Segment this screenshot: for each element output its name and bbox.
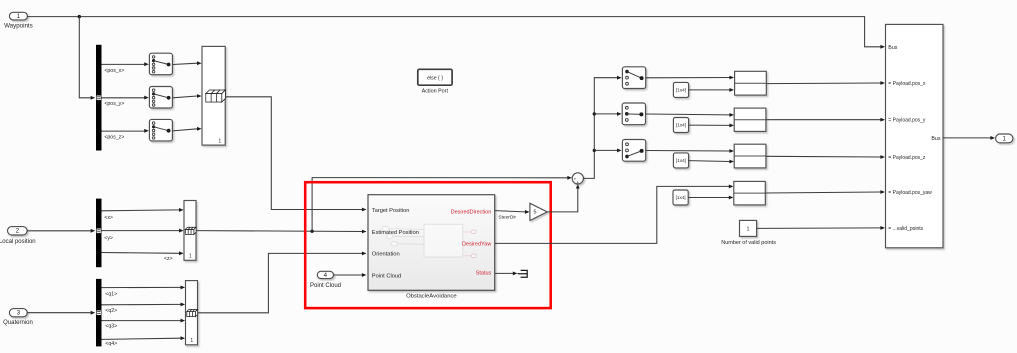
- svg-text:Action Port: Action Port: [422, 89, 449, 95]
- constant [1x4] row1: [673, 82, 688, 97]
- wire sum to switch 1: [583, 78, 617, 179]
- svg-text:[1x4]: [1x4]: [676, 88, 686, 93]
- subsystem ObstacleAvoidance: [368, 195, 495, 291]
- wire z: [102, 252, 180, 255]
- multiport switch 3: [622, 140, 645, 162]
- multiport switch 2: [622, 103, 645, 125]
- svg-text:3: 3: [17, 310, 21, 317]
- wire to switch 2: [594, 113, 617, 115]
- svg-text:<q2>: <q2>: [105, 308, 117, 314]
- terminator block: [518, 270, 528, 277]
- wire concat row1 to pos_x: [766, 82, 880, 85]
- svg-text:5: 5: [534, 210, 537, 216]
- inport block 4 Point Cloud: [317, 271, 333, 278]
- wire q4: [102, 338, 181, 339]
- vector concatenate block (waypoints xyz): [202, 46, 225, 145]
- multiport switch 1: [622, 67, 645, 89]
- constant [1x4] row2: [673, 118, 688, 133]
- svg-text:Status: Status: [476, 270, 492, 276]
- wire Status to terminator: [495, 272, 513, 274]
- svg-text:Point Cloud: Point Cloud: [310, 283, 341, 289]
- svg-text:= ...valid_points: = ...valid_points: [888, 226, 923, 232]
- svg-text:1: 1: [17, 13, 21, 20]
- wire concat row3 to pos_z: [766, 155, 881, 158]
- svg-text:Target Position: Target Position: [372, 208, 410, 214]
- svg-text:[1x4]: [1x4]: [676, 123, 686, 128]
- wire pos_z: [102, 130, 145, 132]
- bus selector 3: [96, 279, 102, 347]
- svg-text:ObstacleAvoidance: ObstacleAvoidance: [406, 294, 457, 300]
- constant [1x4] row4: [673, 190, 688, 205]
- concatenate row3: [734, 144, 766, 168]
- svg-text:[1x4]: [1x4]: [676, 195, 686, 200]
- bus assignment block: [886, 24, 944, 247]
- wire waypoints branch to bus selector 1: [79, 17, 90, 98]
- outport block 1: [996, 134, 1013, 143]
- concatenate row4: [734, 181, 766, 205]
- svg-text:1: 1: [189, 254, 192, 260]
- svg-text:Estimated Position: Estimated Position: [372, 230, 419, 236]
- wire inport2 to bus selector 2: [27, 230, 91, 232]
- wire concat row4 to pos_yaw: [765, 192, 880, 193]
- junction waypoints branch: [78, 15, 81, 18]
- wire 1x4 row3: [689, 160, 730, 163]
- wire gain to sum: [547, 189, 578, 212]
- gain block 5: [530, 203, 547, 220]
- selector block 2: [149, 87, 172, 109]
- wire q3: [102, 320, 181, 322]
- constant block 1 Number of valid points: [740, 220, 757, 236]
- wire 1x4 row1: [689, 89, 730, 91]
- wire pos_x: [102, 63, 145, 65]
- svg-text:SteerDir: SteerDir: [498, 215, 516, 221]
- svg-text:= Payload.pos_yaw: = Payload.pos_yaw: [888, 190, 932, 196]
- wire DesiredDirection to gain: [495, 211, 525, 212]
- wire constant to valid_points: [757, 227, 881, 230]
- svg-text:<y>: <y>: [104, 235, 113, 241]
- vector concatenate block (local position): [184, 201, 196, 261]
- wire pos_y: [102, 97, 145, 99]
- svg-text:+: +: [577, 180, 580, 185]
- wire switch1 to concat row1: [646, 77, 730, 79]
- inport block 3 Quaternion: [9, 309, 27, 317]
- svg-text:Bus: Bus: [888, 45, 897, 51]
- svg-text:Point Cloud: Point Cloud: [372, 273, 401, 279]
- wire 1x4 row2: [689, 124, 730, 126]
- svg-text:else { }: else { }: [427, 76, 443, 82]
- wire selector1 to concat: [173, 63, 198, 64]
- wire switch2 to concat row2: [646, 113, 730, 116]
- bus selector 2: [96, 199, 102, 268]
- wire to switch 3: [594, 149, 617, 151]
- svg-text:<pos_z>: <pos_z>: [104, 134, 124, 140]
- wire y: [102, 230, 180, 232]
- wire inport3 to bus selector 3: [27, 312, 90, 314]
- svg-text:DesiredYaw: DesiredYaw: [462, 242, 491, 248]
- svg-text:Quaternion: Quaternion: [3, 320, 33, 326]
- junction switch2 feed: [593, 112, 596, 115]
- concatenate row1: [735, 71, 767, 95]
- wire concat row2 to pos_y: [766, 119, 881, 121]
- else action port block: [418, 69, 452, 85]
- svg-text:<pos_y>: <pos_y>: [104, 101, 124, 107]
- svg-text:<x>: <x>: [104, 215, 113, 221]
- selector block 3: [149, 119, 172, 140]
- svg-text:2: 2: [16, 228, 20, 235]
- wire selector3 to concat: [173, 129, 198, 131]
- wire inport4 to subsystem: [334, 274, 363, 276]
- svg-text:= Payload.pos_x: = Payload.pos_x: [888, 81, 926, 87]
- inport block 2 Local position: [8, 227, 28, 235]
- svg-text:Local position: Local position: [0, 239, 36, 245]
- inport block 1 Waypoints: [9, 12, 27, 20]
- svg-text:Waypoints: Waypoints: [4, 23, 33, 30]
- svg-text:<pos_x>: <pos_x>: [104, 68, 124, 74]
- wire selector2 to concat: [173, 96, 198, 98]
- svg-text:<q1>: <q1>: [105, 291, 117, 297]
- concatenate row2: [734, 108, 766, 131]
- wire x: [102, 209, 180, 212]
- vector concatenate block (quaternion): [186, 281, 198, 345]
- wire 1x4 row4: [688, 197, 729, 199]
- wire branch to sum: [312, 178, 567, 232]
- svg-text:1: 1: [1003, 135, 1007, 142]
- wire concat to Orientation: [198, 253, 363, 312]
- svg-text:= Payload.pos_z: = Payload.pos_z: [888, 155, 926, 161]
- svg-text:Orientation: Orientation: [372, 252, 400, 258]
- wire bus to outport: [943, 137, 991, 139]
- sum block: [572, 173, 583, 184]
- wire switch3 to concat row3: [646, 150, 730, 153]
- bus selector 1: [96, 45, 102, 151]
- svg-text:<q3>: <q3>: [105, 324, 117, 330]
- svg-text:DesiredDirection: DesiredDirection: [451, 209, 492, 215]
- svg-text:1: 1: [747, 227, 750, 233]
- svg-text:<q4>: <q4>: [105, 341, 117, 347]
- svg-text:4: 4: [324, 272, 328, 279]
- red highlight rectangle: [305, 182, 551, 308]
- junction switch3 feed: [593, 149, 596, 152]
- selector block 1: [149, 53, 172, 74]
- svg-text:<z>: <z>: [164, 256, 173, 262]
- svg-text:= Payload.pos_y: = Payload.pos_y: [888, 118, 926, 124]
- wire DesiredYaw to concat row4: [495, 186, 729, 243]
- wire q1: [102, 286, 181, 288]
- constant [1x4] row3: [673, 153, 688, 168]
- svg-text:1: 1: [218, 138, 221, 144]
- wire q2: [102, 303, 181, 305]
- wire concat to Target Position: [225, 97, 362, 210]
- svg-text:[1x4]: [1x4]: [676, 158, 686, 163]
- svg-text:1: 1: [190, 338, 193, 344]
- svg-text:Number of valid points: Number of valid points: [721, 240, 776, 246]
- wire concat to Estimated Position: [196, 230, 362, 233]
- svg-text:Bus: Bus: [931, 136, 940, 142]
- wire Waypoints to Bus input: [27, 17, 880, 47]
- junction estimated position branch: [310, 230, 313, 233]
